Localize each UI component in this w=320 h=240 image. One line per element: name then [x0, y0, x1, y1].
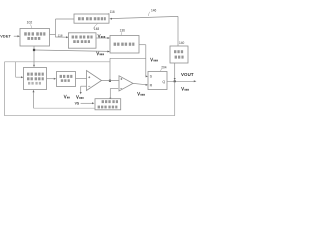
block compensation box 7 [57, 72, 76, 87]
svg-text:136: 136 [120, 29, 126, 33]
svg-text:VS: VS [75, 101, 80, 105]
svg-text:102: 102 [27, 21, 33, 25]
svg-text:146: 146 [151, 8, 157, 12]
wire latch Q to VOUT with node [167, 80, 195, 82]
svg-text:Q: Q [162, 80, 165, 84]
wire box5 bottom to lower rail [33, 92, 35, 108]
wire from 140 top riser into 116 right edge [111, 16, 178, 46]
svg-text:116: 116 [110, 10, 115, 14]
op-amp U2 comparator triangle [119, 76, 133, 91]
node error dot [109, 80, 111, 82]
wire riser x=55.5 [55, 19, 57, 37]
wire U2 output to latch R [133, 83, 147, 84]
label Vslope [137, 92, 140, 95]
wire error node riser to Vsum net [110, 58, 146, 81]
block ramp generator box 6 [95, 99, 121, 110]
wire slope ramp from box6 to U2 minus [110, 89, 118, 99]
wire to block 118 [55, 36, 67, 38]
wire 140 bottom to output node [174, 63, 176, 79]
block 136 adder box [110, 36, 139, 54]
svg-text:R: R [150, 83, 153, 87]
label Vsen lower [97, 52, 100, 55]
label Vref [76, 95, 79, 98]
wire 118 out Vsen to adder 136 [96, 37, 109, 39]
wire 102 right to riser [50, 34, 56, 36]
wire long feedback rail left [5, 62, 175, 116]
block 118 box [68, 33, 96, 48]
wire 102 bottom down with junction [33, 46, 35, 65]
latch 204 SR box [148, 72, 167, 90]
wire output node down to bottom rail [174, 81, 176, 115]
svg-text:204: 204 [161, 66, 167, 70]
wire U1 output to comparator U2 [102, 80, 120, 82]
wire VDET input arrow [14, 35, 19, 37]
svg-text:118: 118 [58, 34, 63, 38]
block 116 timer box [74, 14, 109, 23]
node A junction from 102 to wire up to timer [50, 19, 75, 37]
block error amp box 5 [24, 68, 47, 90]
node output dot [174, 80, 176, 82]
label Vsen [98, 34, 101, 37]
svg-text:140: 140 [179, 41, 185, 45]
op-amp U1 comparator triangle [87, 71, 102, 91]
wire 136 output Vsum to latch S [139, 45, 147, 77]
label Vsum [150, 58, 153, 61]
wire box5 to box7 [47, 78, 55, 80]
wire junction to adder 136 lower input [35, 50, 109, 51]
wire box7 to op-amp U1 [76, 78, 87, 80]
svg-text:VOUT: VOUT [181, 72, 194, 77]
label Vtrue [181, 87, 184, 90]
block 140 driver box [170, 46, 188, 63]
label Vso [64, 95, 67, 98]
block 102 detector box [20, 29, 50, 47]
wire to timer 116 [56, 18, 75, 20]
wire Vref into U1 minus input [81, 86, 87, 92]
svg-text:VDET: VDET [0, 35, 11, 39]
svg-text:148: 148 [94, 27, 100, 31]
node junction dot [33, 49, 35, 51]
